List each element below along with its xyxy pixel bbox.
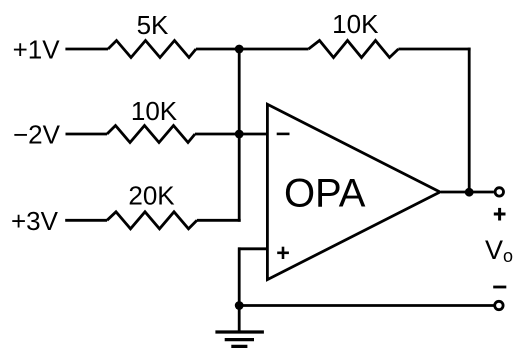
svg-text:10K: 10K bbox=[131, 96, 178, 126]
output polarity plus sign bbox=[494, 213, 506, 216]
output terminal - circle bbox=[495, 301, 503, 309]
wire from R4 to output corner bbox=[398, 48, 470, 51]
junction node at R2 bbox=[235, 130, 244, 139]
wire non-inverting input vertical bbox=[238, 247, 241, 305]
junction node at output bbox=[465, 188, 474, 197]
svg-text:10K: 10K bbox=[332, 9, 379, 39]
svg-text:OPA: OPA bbox=[284, 172, 366, 216]
wire feedback vertical bbox=[468, 48, 471, 194]
resistor R1 5K bbox=[108, 41, 196, 58]
resistor R3 20K bbox=[107, 212, 197, 229]
wire from R2 to inverting input bbox=[195, 133, 267, 136]
wire feedback top bbox=[239, 48, 308, 51]
svg-text:−2V: −2V bbox=[13, 120, 61, 150]
wire summing node vertical bus bbox=[238, 48, 241, 222]
ground stub bbox=[238, 306, 241, 333]
op-amp non-inverting input plus sign bbox=[277, 252, 289, 255]
svg-text:20K: 20K bbox=[128, 181, 175, 211]
output polarity minus sign bbox=[493, 286, 506, 289]
wire bottom return bbox=[239, 304, 493, 307]
svg-text:Vo: Vo bbox=[485, 235, 513, 266]
wire from +3V to R3 bbox=[65, 219, 107, 222]
wire from R3 to summing node vertical bbox=[197, 219, 241, 222]
junction node at R1/feedback bbox=[235, 45, 244, 54]
wire from +1V to R1 bbox=[65, 48, 108, 51]
svg-text:5K: 5K bbox=[137, 10, 169, 40]
resistor R4 10K feedback bbox=[309, 41, 399, 58]
svg-text:+1V: +1V bbox=[13, 35, 61, 65]
wire op-amp output bbox=[441, 191, 494, 194]
output terminal + circle bbox=[495, 188, 503, 196]
wire non-inverting input horizontal bbox=[238, 247, 267, 250]
op-amp inverting input minus sign bbox=[277, 133, 290, 136]
wire from R1 to summing node bbox=[196, 48, 241, 51]
svg-text:+3V: +3V bbox=[11, 206, 59, 236]
op-amp U1 triangle bbox=[267, 104, 440, 279]
junction node at ground bbox=[235, 301, 244, 310]
wire from -2V to R2 bbox=[66, 133, 108, 136]
ground symbol bbox=[215, 330, 264, 333]
resistor R2 10K bbox=[107, 126, 195, 143]
